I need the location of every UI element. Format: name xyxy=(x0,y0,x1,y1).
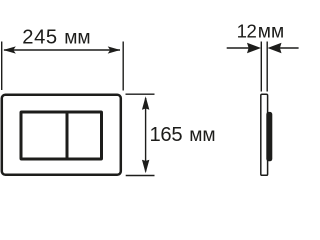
165 top extension line xyxy=(126,93,155,95)
svg-text:165: 165 xyxy=(150,124,183,146)
front view plate outline xyxy=(2,95,121,175)
165 top arrowhead xyxy=(142,96,149,110)
side view plate body xyxy=(261,94,268,175)
12 left arrow shaft xyxy=(227,47,249,49)
165 bottom arrowhead xyxy=(142,160,149,174)
svg-text:245: 245 xyxy=(22,27,57,49)
12 right arrow shaft xyxy=(280,47,299,49)
12 left extension line xyxy=(260,42,262,92)
svg-text:мм: мм xyxy=(189,125,215,146)
button divider line xyxy=(66,112,69,159)
svg-text:мм: мм xyxy=(64,28,90,49)
svg-text:12: 12 xyxy=(237,21,257,42)
165 bottom extension line xyxy=(126,175,155,177)
245 left extension line xyxy=(1,42,3,91)
button panel outer rectangle xyxy=(21,112,102,159)
245 right arrowhead xyxy=(108,46,121,53)
12 right arrowhead (pointing left) xyxy=(268,43,282,53)
165 dimension line xyxy=(145,98,147,172)
12 right extension line xyxy=(266,42,268,92)
12 left arrowhead (pointing right) xyxy=(247,43,261,53)
side view button bulge xyxy=(266,112,272,161)
245 right extension line xyxy=(122,42,124,91)
svg-text:мм: мм xyxy=(258,22,284,43)
245 left arrowhead xyxy=(3,46,16,53)
245 dimension line xyxy=(4,49,120,51)
